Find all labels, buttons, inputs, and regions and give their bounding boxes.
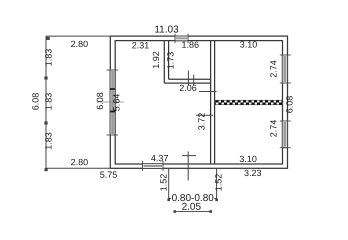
porch left edge [168,168,170,200]
porch bottom-left corner dot [167,199,170,202]
window W4 on right wall lower [282,121,287,148]
dimension tick square bottom-left corner [45,168,48,171]
svg-text:3.23: 3.23 [244,168,262,178]
partition wall tick lower [196,114,213,116]
window W3 end tick top [280,54,291,56]
window W2 end tick bottom [107,134,119,136]
porch center cross tick [182,155,196,157]
svg-text:1.83: 1.83 [44,93,54,111]
svg-text:11.03: 11.03 [154,24,179,35]
tick square 2.05 line right [209,210,212,213]
svg-text:6.08: 6.08 [285,96,295,114]
hatched load-bearing wall (checkerboard) [216,100,283,104]
svg-text:6.08: 6.08 [95,92,105,110]
2.05 dimension line [175,211,211,213]
exterior wall outer face [110,36,287,168]
window W5 on bottom wall [143,164,164,169]
svg-text:3.72: 3.72 [197,113,207,131]
svg-text:3.10: 3.10 [239,154,257,164]
small room left wall inner face [168,41,170,80]
window W1 end tick left [174,34,176,44]
extension tick above 2.06 label left [187,71,189,86]
dimension tick square top-left corner [47,37,50,40]
window W3 on right wall upper [282,55,287,83]
window W2 on left wall [110,70,115,135]
svg-text:2.06: 2.06 [179,83,197,93]
partition wall tick upper [199,91,217,93]
svg-text:1.83: 1.83 [44,132,54,150]
small room left wall outer face [163,41,165,84]
svg-text:1.83: 1.83 [44,49,54,67]
exterior wall inner face [115,41,282,164]
window W5 end tick left [142,161,144,171]
window W3 end tick bottom [280,82,291,84]
window W1 on top wall [175,36,188,41]
window W2 mullion upper [110,88,115,90]
svg-text:2.05: 2.05 [182,202,202,213]
dimension tick square left line upper [44,76,47,79]
svg-text:2.80: 2.80 [71,157,89,167]
top-left dimension line stub [46,35,110,37]
svg-text:1.73: 1.73 [166,52,176,70]
svg-text:2.31: 2.31 [132,40,150,50]
window W2 end tick top [107,69,119,71]
bottom-left dimension line stub [46,167,110,169]
dimension tick square left line lower [44,121,47,124]
window W4 end tick bottom [280,147,291,149]
svg-text:1.52: 1.52 [213,174,223,192]
svg-text:5.64: 5.64 [112,94,122,112]
svg-text:3.10: 3.10 [240,39,258,49]
svg-text:6.08: 6.08 [31,93,41,111]
svg-text:2.80: 2.80 [71,39,89,49]
small room bottom wall outer face [164,82,210,84]
svg-text:1.86: 1.86 [182,40,200,50]
left window center tick [97,101,125,103]
left vertical dimension line [45,36,47,168]
porch center extension line [187,152,189,181]
svg-text:1.92: 1.92 [151,51,161,69]
svg-text:4.37: 4.37 [151,153,169,163]
tick square 2.05 line left [173,210,176,213]
window W4 end tick top [280,120,291,122]
svg-text:2.74: 2.74 [269,120,279,138]
svg-text:5.75: 5.75 [100,170,118,180]
porch bottom-right corner dot [215,199,218,202]
small room bottom wall inner face [169,78,211,80]
porch right edge [216,168,218,200]
svg-text:1.52: 1.52 [158,174,168,192]
window W1 end tick right [187,34,189,44]
extension tick above 2.06 label right [193,75,195,86]
svg-text:2.74: 2.74 [269,60,279,78]
interior partition wall right face (full height) [214,41,216,164]
window W2 mullion lower [110,111,115,113]
interior partition wall left face (full height) [210,41,212,164]
window W5 end tick right [162,161,164,171]
